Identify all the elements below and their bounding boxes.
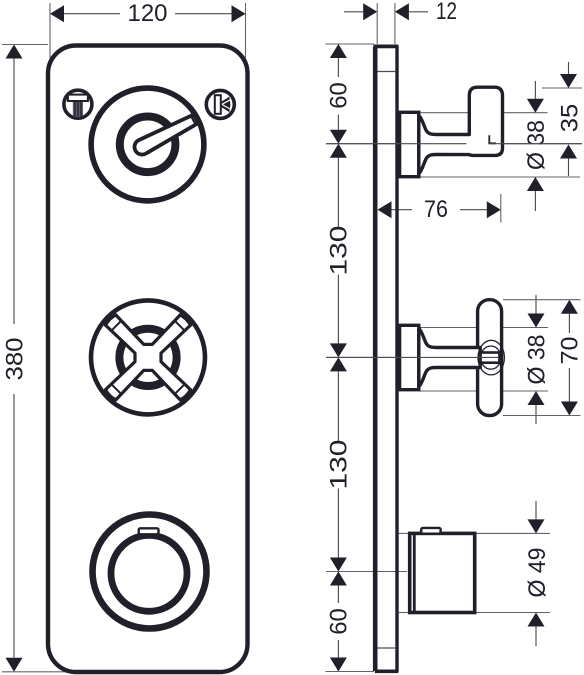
dim o38 mid extensions bbox=[420, 327, 548, 329]
handle 3 cylinder seam bbox=[413, 535, 416, 611]
dim o38 mid line bbox=[535, 295, 537, 314]
dim o49 extensions bbox=[474, 532, 550, 534]
dim 12 line bbox=[344, 11, 363, 13]
svg-text:Ø 38: Ø 38 bbox=[524, 335, 551, 385]
side plate top cap bbox=[373, 45, 398, 49]
side plate bottom cap bbox=[375, 669, 398, 673]
handle 1 neck stem and lever bbox=[419, 87, 503, 173]
handle 1 centerline overlay bbox=[326, 143, 467, 145]
handle 2 hub screw rect bbox=[481, 353, 500, 363]
svg-text:70: 70 bbox=[556, 337, 583, 365]
knob 1 lever handle bbox=[135, 115, 199, 155]
knob 1 outer ring bbox=[91, 88, 204, 201]
dim 380 line bbox=[13, 59, 15, 325]
svg-text:35: 35 bbox=[556, 104, 583, 133]
handle 3 cylinder bbox=[410, 533, 475, 612]
handle 1 base rosette bbox=[400, 112, 419, 176]
svg-text:60: 60 bbox=[326, 608, 353, 635]
dim 120 line bbox=[64, 13, 120, 15]
handle 2 hub circles bbox=[478, 340, 504, 375]
dim 76 line bbox=[392, 209, 413, 211]
dim o38 top line bbox=[534, 81, 536, 99]
knob 3 outer ring bbox=[93, 515, 207, 629]
svg-text:130: 130 bbox=[326, 226, 353, 276]
handle 3 safety tab bbox=[421, 528, 440, 534]
screw left bbox=[64, 90, 92, 118]
escutcheon plate front view bbox=[48, 46, 248, 673]
chain dim extension/center lines bbox=[325, 43, 374, 45]
screw right bbox=[206, 90, 234, 118]
svg-text:380: 380 bbox=[1, 338, 28, 381]
knob 2 outer ring bbox=[91, 300, 205, 414]
knob 2 cross notches bbox=[175, 321, 184, 330]
handle 1 lever mark bbox=[489, 135, 496, 143]
side plate right edge bbox=[395, 46, 398, 673]
handle 2 centerline overlay bbox=[326, 356, 499, 358]
dim 70 line bbox=[568, 314, 570, 333]
knob 3 top tab bbox=[139, 528, 159, 534]
dim 35 extension bbox=[542, 87, 582, 89]
svg-text:Ø 38: Ø 38 bbox=[523, 120, 550, 170]
svg-text:12: 12 bbox=[436, 0, 457, 25]
knob 2 cross handle bbox=[106, 315, 191, 400]
knob 2 hub ring bbox=[119, 329, 176, 386]
knob 3 inner circle bbox=[111, 535, 187, 611]
dim 35 line bbox=[568, 62, 570, 74]
side plate seam bottom bbox=[378, 647, 396, 649]
dim 120 extension lines bbox=[49, 3, 51, 58]
dim 70 extensions bbox=[503, 299, 581, 301]
dim 76 extension bbox=[500, 194, 502, 223]
handle 2 base rosette bbox=[400, 325, 419, 389]
svg-text:130: 130 bbox=[326, 440, 353, 490]
handle 3 thin lines to cylinder bbox=[399, 532, 410, 534]
handle 2 cross capsule bbox=[478, 300, 502, 416]
svg-text:60: 60 bbox=[326, 82, 353, 109]
dim 380 extension lines bbox=[2, 44, 48, 46]
handle 2 neck and stem bbox=[419, 329, 480, 387]
side plate seam top bbox=[378, 71, 396, 73]
chain dim 60/130/130/60 vertical line bbox=[337, 58, 339, 77]
dim o38 top extensions bbox=[420, 112, 548, 114]
dim o49 line bbox=[535, 501, 537, 519]
side plate wall line bbox=[373, 47, 378, 671]
svg-text:120: 120 bbox=[128, 0, 168, 27]
knob 1 inner ring bbox=[120, 117, 176, 173]
dim 12 extension lines bbox=[376, 3, 378, 44]
knob 1 lever tip notch bbox=[191, 116, 196, 125]
svg-text:76: 76 bbox=[424, 196, 448, 223]
svg-text:Ø 49: Ø 49 bbox=[524, 548, 551, 598]
